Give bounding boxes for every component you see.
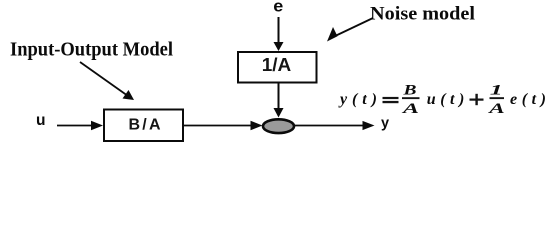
block U2 1/A (noise model) (238, 52, 317, 83)
svg-text:B: B (402, 83, 416, 99)
svg-text:Noise model: Noise model (370, 4, 475, 25)
svg-text:A: A (401, 101, 419, 117)
svg-text:Input-Output Model: Input-Output Model (10, 40, 174, 61)
svg-text:1: 1 (490, 83, 503, 99)
svg-text:1/A: 1/A (262, 55, 292, 75)
summing node (junction) (263, 119, 294, 133)
svg-text:B/A: B/A (129, 117, 161, 134)
annotation arrow to 1/A block (327, 18, 373, 42)
wire summing node to y with arrowhead (295, 121, 375, 130)
wire e to 1/A with arrowhead (274, 17, 284, 51)
svg-text:A: A (488, 101, 505, 117)
wire 1/A to summing node with arrowhead (274, 83, 284, 118)
svg-text:e: e (273, 0, 283, 16)
equation y(t) = B/A u(t) + 1/A e(t) (338, 83, 546, 117)
wire u to B/A with arrowhead (57, 121, 103, 131)
annotation arrow to B/A block (80, 62, 134, 100)
svg-text:u: u (36, 112, 46, 129)
svg-text:y: y (381, 116, 389, 132)
block U1 B/A (input-output model) (104, 110, 183, 142)
wire B/A to summing node with arrowhead (184, 121, 263, 131)
